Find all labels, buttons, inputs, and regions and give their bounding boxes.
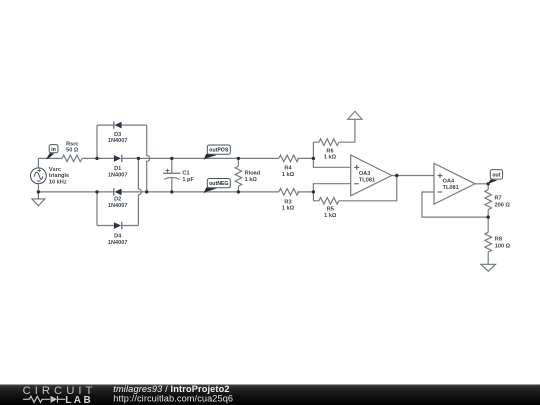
- wire vertical A with hop over rail2: [138, 158, 141, 225]
- svg-text:1 kΩ: 1 kΩ: [282, 206, 295, 212]
- junction rail1 / D3 branch: [95, 157, 98, 160]
- svg-text:LAB: LAB: [65, 395, 93, 405]
- svg-text:1N4007: 1N4007: [108, 172, 128, 178]
- op-amp OA4: [434, 163, 475, 204]
- node flag out: [487, 170, 503, 185]
- wire R5 to output: [339, 176, 397, 201]
- junction R7 / R8 / OA4 feedback: [487, 215, 490, 218]
- resistor R6: [319, 139, 339, 161]
- wire source bottom lead: [37, 184, 39, 192]
- wire R5 branch: [313, 192, 319, 201]
- op-amp OA3: [351, 155, 392, 196]
- diode D2: [108, 188, 128, 209]
- svg-text:triangle: triangle: [49, 173, 69, 179]
- svg-text:tmilagres93 / IntroProjeto2: tmilagres93 / IntroProjeto2: [113, 384, 229, 394]
- wire OA4 feedback: [422, 192, 488, 217]
- wire source top lead: [37, 158, 39, 167]
- wire D4 branch bottom right: [122, 225, 139, 227]
- wire to OA3 -in: [313, 184, 350, 192]
- resistor R7: [485, 184, 510, 217]
- wire vertical B with hop over rail1: [147, 125, 150, 192]
- wire OA4 out: [475, 183, 488, 185]
- junction R4 / R6 / OA3 +in: [312, 157, 315, 160]
- ground: [32, 199, 45, 206]
- svg-text:OA3: OA3: [359, 171, 371, 177]
- wire rail1 D1 to R4: [122, 157, 279, 159]
- junction rail2 / D4 branch: [95, 190, 98, 193]
- wire rail2 source to D2: [38, 191, 113, 193]
- svg-text:R3: R3: [284, 199, 291, 205]
- svg-text:D2: D2: [114, 197, 121, 203]
- svg-text:1N4007: 1N4007: [108, 203, 128, 209]
- wire D3 branch left vertical: [96, 125, 98, 158]
- junction rail2 / D3 branch: [145, 190, 148, 193]
- diode D3: [108, 121, 128, 144]
- wire R6 to supply: [339, 119, 355, 142]
- svg-text:1 kΩ: 1 kΩ: [245, 177, 258, 183]
- wire to OA3 +in: [313, 158, 350, 167]
- svg-text:R8: R8: [495, 236, 502, 242]
- wire R3 to node: [297, 191, 313, 193]
- svg-text:Rload: Rload: [245, 171, 261, 177]
- node out junction OA4 output / R7: [487, 182, 490, 185]
- wire D3 branch top right: [122, 124, 147, 126]
- junction rail2 / Rload: [237, 190, 240, 193]
- svg-text:50 Ω: 50 Ω: [66, 148, 79, 154]
- wire to ground left: [37, 192, 39, 199]
- resistor R4: [279, 155, 299, 178]
- svg-text:OA4: OA4: [443, 179, 455, 185]
- wire D4 branch bottom left: [97, 225, 114, 227]
- svg-text:1N4007: 1N4007: [108, 138, 128, 144]
- supply symbol: [348, 111, 362, 119]
- svg-text:100 Ω: 100 Ω: [495, 243, 511, 249]
- node flag in: [46, 145, 58, 160]
- svg-text:1 kΩ: 1 kΩ: [324, 213, 337, 219]
- svg-text:out: out: [492, 172, 500, 178]
- svg-text:TL081: TL081: [443, 185, 459, 191]
- svg-text:D4: D4: [114, 234, 122, 240]
- junction Vsrc / rail2 / ground: [37, 190, 40, 193]
- capacitor C1: [163, 158, 194, 192]
- svg-text:outPOS: outPOS: [209, 148, 229, 154]
- node flag outPOS: [204, 145, 231, 160]
- svg-text:C1: C1: [182, 171, 189, 177]
- svg-text:TL081: TL081: [359, 177, 375, 183]
- voltage source Vsrc: [31, 167, 70, 186]
- resistor Rsrc: [62, 141, 82, 161]
- logo resistor-diode squiggle: [23, 396, 50, 402]
- svg-text:R4: R4: [284, 166, 292, 172]
- svg-text:1 pF: 1 pF: [182, 177, 194, 183]
- svg-text:Rsrc: Rsrc: [66, 141, 78, 147]
- node flag outNEG: [204, 179, 231, 194]
- svg-text:R5: R5: [327, 207, 334, 213]
- junction rail1 / Rload: [237, 157, 240, 160]
- resistor R8: [485, 217, 511, 264]
- wire D4 branch left vertical: [96, 192, 98, 226]
- junction rail1 / D4 branch: [137, 157, 140, 160]
- svg-text:200 Ω: 200 Ω: [495, 203, 511, 209]
- svg-text:R7: R7: [495, 195, 502, 201]
- wire rail1 left: [38, 157, 62, 159]
- wire OA3 out to OA4: [392, 175, 434, 177]
- svg-text:in: in: [51, 147, 56, 153]
- diode D1: [108, 155, 128, 179]
- footer bar: [0, 385, 540, 405]
- svg-text:10 kHz: 10 kHz: [49, 180, 67, 186]
- svg-text:D1: D1: [114, 166, 121, 172]
- svg-text:D3: D3: [114, 132, 121, 138]
- resistor Rload: [235, 158, 261, 192]
- junction rail1 / C1: [170, 157, 173, 160]
- wire R6 branch up: [313, 142, 319, 158]
- wire rail1 Rsrc to D1: [82, 157, 114, 159]
- svg-text:Vsrc: Vsrc: [49, 167, 61, 173]
- svg-text:http://circuitlab.com/cua25q6: http://circuitlab.com/cua25q6: [113, 393, 233, 403]
- junction rail2 / C1: [170, 190, 173, 193]
- svg-text:R6: R6: [326, 148, 333, 154]
- ground right: [481, 264, 496, 271]
- svg-text:outNEG: outNEG: [209, 181, 228, 187]
- resistor R3: [279, 189, 299, 212]
- wire R4 to node: [297, 157, 313, 159]
- svg-text:1N4007: 1N4007: [108, 240, 128, 246]
- svg-text:1 kΩ: 1 kΩ: [324, 155, 337, 161]
- junction R3 / R5 / OA3 -in: [312, 190, 315, 193]
- junction OA3 output / R5 feedback: [395, 174, 398, 177]
- wire rail2 D2 to R3: [122, 191, 279, 193]
- resistor R5: [319, 198, 339, 219]
- wire D3 branch top left: [97, 124, 114, 126]
- diode D4: [108, 222, 128, 246]
- svg-text:1 kΩ: 1 kΩ: [282, 172, 295, 178]
